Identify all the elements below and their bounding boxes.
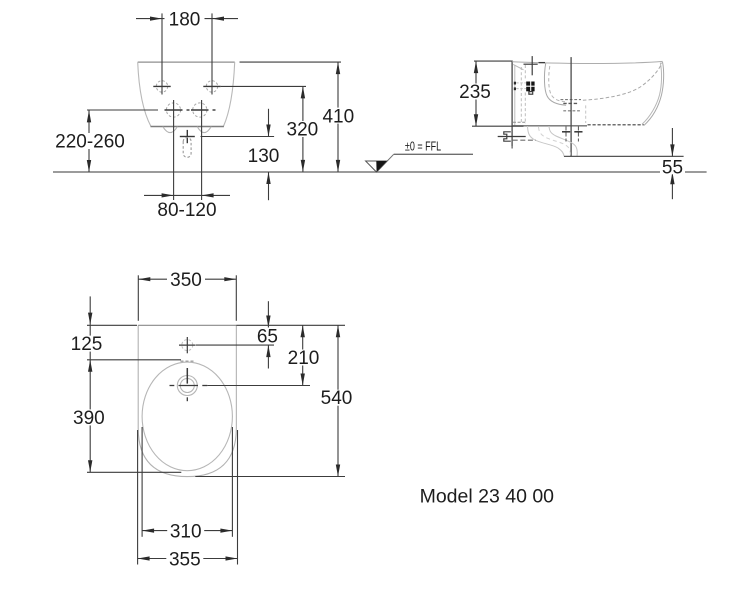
svg-text:390: 390: [73, 408, 105, 429]
dimension 125/390 shared reference line: [87, 359, 181, 361]
side view: trap inner dashes: [539, 127, 571, 156]
svg-text:210: 210: [288, 348, 320, 369]
side view: fixing nut black square: [526, 82, 534, 92]
dimension 55 line upper part: [671, 128, 673, 156]
dimension 410 line: [337, 62, 339, 172]
label 235: [456, 84, 494, 100]
side view: drain axis centreline: [570, 57, 572, 156]
side view: inner front wing curve: [642, 63, 662, 125]
plan view: waterline dashes at oval top: [181, 360, 194, 362]
side view: hanger bracket diagonal: [513, 64, 523, 69]
svg-text:235: 235: [459, 82, 491, 103]
FFL level mark: short line: [394, 153, 473, 155]
front view: bidet body top edge: [138, 61, 235, 63]
dimension 125/390 line: [89, 325, 91, 473]
plan view: tap hole dashed circle: [182, 340, 193, 351]
side view: drain flange bolt left: [565, 127, 567, 142]
svg-text:Model 23 40 00: Model 23 40 00: [420, 486, 555, 508]
label 220-260: [52, 133, 128, 149]
side view: bracket dashed line right: [513, 139, 536, 141]
dimension 80-120 extension lines: [173, 100, 175, 200]
dimension 220-260 line: [88, 110, 90, 172]
plan view: body outline: [138, 325, 236, 476]
dimension 210 bottom extension line: [207, 385, 310, 387]
plan view: basin oval: [142, 362, 232, 471]
plan view: body top edge: [138, 324, 236, 326]
side view: bottom edge solid: [512, 125, 587, 127]
dimension 310 line: [142, 530, 232, 532]
front view: left lower fixing hole dashed circle: [166, 103, 180, 117]
label 355: [166, 551, 203, 567]
side view: basin back curve dashed hidden: [549, 66, 565, 102]
dimension 220-260 reference line: [87, 109, 158, 111]
dimension 180 extension/centre lines: [161, 13, 163, 94]
dimension 320 line: [302, 86, 304, 171]
side view: wall bracket cross horizontal: [498, 136, 526, 138]
front view: right lower fixing hole dashed circle: [193, 103, 207, 117]
front view: left top mounting hole cross: [153, 85, 170, 87]
dimension 355 extension lines: [137, 430, 139, 565]
front view: right top mounting hole dashed circle: [206, 81, 217, 92]
dimension 350 extension lines: [137, 275, 139, 321]
side view: waterline dashes mid: [563, 102, 577, 104]
dimension 355 line: [138, 558, 238, 560]
dimension 180 line: [136, 18, 238, 20]
svg-text:80-120: 80-120: [157, 200, 216, 221]
side view: rim tick right of cross: [539, 62, 546, 64]
dimension 540 line: [337, 325, 339, 476]
label 540: [318, 390, 355, 406]
side view: inner rim dashed sweep: [583, 63, 662, 101]
dimension 55 line lower part: [671, 172, 673, 199]
side view: fixing bolt white cross in square: [526, 85, 535, 87]
side view: dashes above bottom near wall: [513, 121, 526, 123]
side view: top fixing cross horizontal: [524, 63, 538, 65]
svg-text:350: 350: [170, 270, 202, 291]
svg-text:130: 130: [248, 146, 280, 167]
label 320: [284, 121, 322, 137]
front view: lower holes horizontal centreline dash-dot: [165, 109, 183, 111]
svg-text:180: 180: [169, 9, 201, 30]
dimension 320 extension line: [221, 85, 306, 87]
label 310: [167, 523, 204, 539]
label 390: [70, 409, 107, 425]
side view: waterline dashes upper: [561, 99, 582, 101]
front view: bidet body left side: [138, 62, 151, 126]
dimension 65 line below: [267, 345, 269, 368]
side view: wall line: [511, 61, 513, 147]
label 180: [165, 11, 205, 27]
front view: left top mounting hole dashed circle: [156, 81, 167, 92]
svg-text:220-260: 220-260: [55, 132, 125, 153]
dimension 80-120 line: [144, 194, 230, 196]
side view: drain flange bolt right: [577, 127, 579, 142]
dimension 125 top reference line: [87, 324, 137, 326]
side view: top fixing cross vertical: [531, 56, 533, 75]
front view: right drain boss bump: [197, 127, 211, 133]
FFL level mark: diagonal: [377, 154, 394, 171]
dimension 130 extension line: [201, 136, 275, 138]
side view: trap left pipe curve: [528, 126, 565, 156]
dimension 235 line: [475, 61, 477, 126]
side view: wall anchor dot lower: [514, 87, 516, 90]
label 125: [68, 336, 105, 352]
front view: bidet body right side: [223, 62, 234, 126]
side view: fixing bolt small piece below: [529, 92, 533, 95]
svg-text:65: 65: [257, 326, 278, 347]
svg-text:310: 310: [170, 521, 202, 542]
svg-text:410: 410: [322, 106, 354, 127]
side view: waterline dashes lower: [563, 110, 580, 112]
side view: wall anchor dot upper: [514, 82, 516, 85]
side view: basin step dashed edge: [585, 105, 587, 123]
dimension 310 extension lines: [141, 427, 143, 537]
dimension 210 line: [302, 325, 304, 385]
front view: bidet body bottom edge: [151, 126, 224, 128]
side view: outer front wing curve: [644, 62, 664, 126]
dimension 180 arrows: [150, 17, 162, 21]
side view: drain outlet line: [564, 155, 684, 157]
svg-text:355: 355: [169, 549, 201, 570]
label 130: [246, 147, 282, 163]
label 210: [285, 350, 322, 366]
dimension 210 top extension line: [236, 324, 345, 326]
side view: wall bracket outline: [504, 132, 511, 141]
label 65: [255, 328, 280, 344]
side view: hidden bolt dashed verticals: [520, 67, 522, 124]
dimension 125 line above: [89, 296, 91, 324]
svg-text:125: 125: [71, 334, 103, 355]
dimension 65 line above: [267, 301, 269, 327]
front view: centre cross for drain: [180, 136, 195, 138]
front view: left drain boss bump: [163, 127, 178, 133]
FFL level mark: open triangle: [366, 161, 387, 172]
dimension 540 bottom extension line: [195, 476, 345, 478]
floor line: [53, 171, 707, 173]
dimension 410 extension line: [240, 61, 342, 63]
side view: bottom edge dashed right: [588, 124, 644, 126]
dimension 390 bottom reference line: [87, 471, 181, 473]
plan view: drain hole outer circle: [177, 376, 197, 396]
side view: bidet back edge: [514, 65, 516, 126]
FFL level mark: filled half triangle: [376, 161, 387, 172]
dimension 235 extension lines: [474, 60, 512, 62]
plan view: drain hole inner circle: [180, 379, 194, 393]
label 350: [167, 271, 205, 287]
front view: right top mounting hole cross: [203, 85, 220, 87]
dimension 350 line: [138, 278, 236, 280]
plan view: drain horizontal centreline dash-dot: [170, 385, 175, 387]
svg-text:540: 540: [321, 388, 353, 409]
plan view: drain vertical centreline: [186, 368, 188, 384]
svg-text:320: 320: [287, 120, 319, 141]
svg-text:55: 55: [662, 158, 683, 179]
side view: bolt dashed lines to wall: [516, 82, 526, 84]
plan view: tap hole cross: [179, 344, 196, 346]
side view: trap right pipe curve: [549, 126, 577, 156]
label 55: [660, 159, 685, 174]
dimension 130 line upper part: [268, 109, 270, 137]
front view: dashed drain slot: [183, 138, 191, 158]
side view: top rim line: [512, 61, 662, 63]
label 410: [320, 108, 358, 124]
svg-text:±0 = FFL: ±0 = FFL: [405, 140, 441, 154]
dimension 65 reference line: [196, 344, 274, 346]
side view: basin back curve solid: [544, 63, 566, 105]
dimension 130 line lower part: [268, 172, 270, 200]
